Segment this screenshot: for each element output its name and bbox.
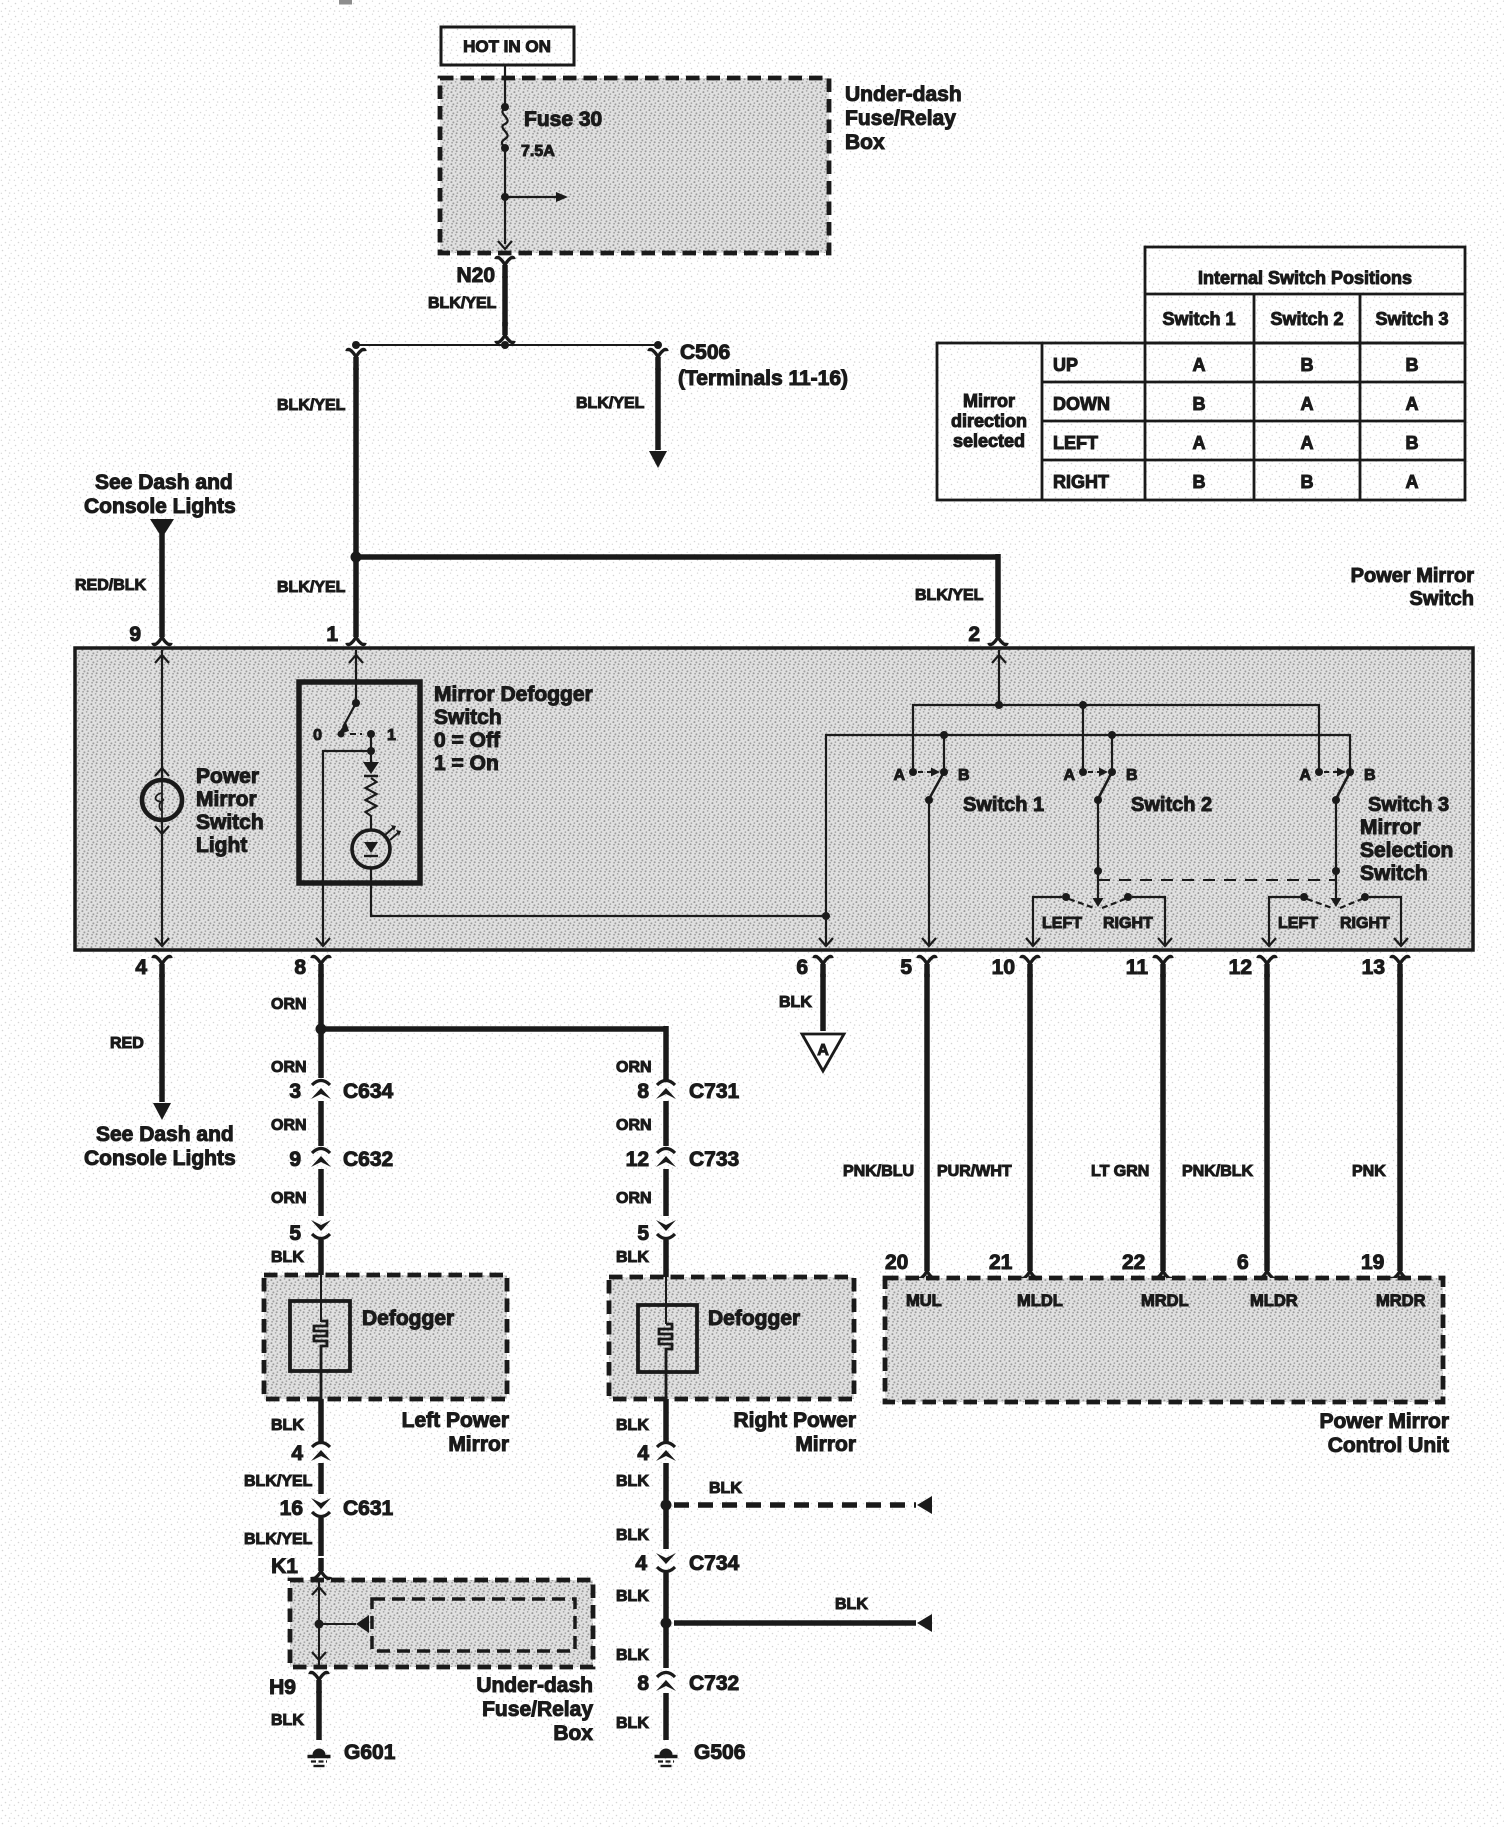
svg-text:6: 6: [1237, 1251, 1249, 1274]
svg-text:Power Mirror: Power Mirror: [1319, 1410, 1449, 1433]
svg-text:C733: C733: [689, 1148, 739, 1171]
svg-text:5: 5: [289, 1222, 301, 1245]
right defogger element box: [638, 1305, 697, 1372]
svg-text:12: 12: [626, 1148, 649, 1171]
svg-text:Right Power: Right Power: [733, 1409, 856, 1432]
wire PNK/BLK to control unit pin 6: [1264, 974, 1270, 1258]
pin 5 connector: [918, 956, 936, 977]
left mirror ORN chain: [318, 1029, 324, 1078]
connector C634: [311, 1081, 331, 1100]
svg-text:Box: Box: [845, 131, 885, 154]
node pin1/pin2 tee: [351, 552, 362, 563]
connector 5 into left mirror: [311, 1220, 331, 1239]
connector H9: [310, 1672, 328, 1693]
table internal switch positions: [1145, 247, 1465, 343]
svg-text:G506: G506: [694, 1741, 745, 1764]
connector 4 right mirror: [656, 1443, 676, 1462]
pin 10 connector: [1021, 956, 1039, 977]
mirror defogger switch box: [299, 682, 420, 883]
svg-text:13: 13: [1362, 956, 1385, 979]
left mirror lower chain to K1: [318, 1399, 324, 1443]
svg-text:Switch: Switch: [1360, 862, 1428, 885]
svg-text:Console Lights: Console Lights: [84, 495, 236, 518]
svg-text:Selection: Selection: [1360, 839, 1453, 862]
svg-text:Mirror Defogger: Mirror Defogger: [434, 683, 593, 706]
svg-text:12: 12: [1229, 956, 1252, 979]
connector C632: [311, 1149, 331, 1168]
power mirror control unit box: [885, 1278, 1443, 1402]
wire LT GRN to control unit pin 22: [1160, 974, 1166, 1258]
switch Switch 3 pivot: [1332, 796, 1340, 804]
svg-text:21: 21: [989, 1251, 1013, 1274]
power label box HOT IN ON: [441, 27, 574, 65]
mechanical linkage dashed: [1098, 879, 1336, 881]
svg-text:selected: selected: [953, 431, 1025, 451]
svg-text:N20: N20: [456, 264, 495, 287]
svg-text:Switch 3: Switch 3: [1368, 794, 1449, 816]
pin 12 connector: [1258, 956, 1276, 977]
svg-text:See Dash and: See Dash and: [96, 1123, 234, 1146]
svg-text:20: 20: [885, 1251, 908, 1274]
wire fuse box internal down to N20: [504, 197, 506, 244]
wire pin9 lamp feed inside box: [161, 650, 163, 780]
svg-text:1: 1: [387, 727, 396, 744]
LED indicator in defogger switch: [352, 830, 390, 868]
svg-text:A: A: [1193, 433, 1206, 453]
svg-text:B: B: [1406, 355, 1419, 375]
connector C731: [656, 1081, 676, 1100]
svg-text:Switch 2: Switch 2: [1131, 794, 1212, 816]
node BLK dashed branch: [661, 1500, 672, 1511]
svg-text:PNK/BLU: PNK/BLU: [843, 1163, 914, 1180]
selector bracket right: [1132, 897, 1165, 944]
svg-text:Left Power: Left Power: [402, 1409, 509, 1432]
svg-text:Switch: Switch: [1410, 588, 1474, 610]
node switch bus 1: [995, 701, 1003, 709]
svg-text:4: 4: [135, 956, 147, 979]
svg-text:Switch 2: Switch 2: [1270, 309, 1343, 329]
defogger switch contacts 0 / 1: [338, 731, 345, 738]
svg-text:MRDL: MRDL: [1141, 1292, 1189, 1310]
connector 5 into right mirror: [656, 1220, 676, 1239]
switch Switch 2 lever: [1098, 772, 1112, 799]
selector left contact: [1300, 893, 1308, 901]
wire BLK solid branch: [674, 1620, 916, 1626]
svg-text:A: A: [1301, 394, 1314, 414]
svg-text:Switch: Switch: [434, 706, 502, 729]
svg-text:BLK/YEL: BLK/YEL: [277, 579, 346, 596]
svg-text:10: 10: [992, 956, 1015, 979]
svg-text:PUR/WHT: PUR/WHT: [937, 1163, 1012, 1180]
svg-text:MLDL: MLDL: [1017, 1292, 1063, 1310]
node bus2 to B1: [940, 731, 948, 739]
svg-text:B: B: [1126, 767, 1138, 784]
svg-text:Fuse/Relay: Fuse/Relay: [482, 1698, 593, 1721]
svg-text:C731: C731: [689, 1080, 740, 1103]
svg-text:See Dash and: See Dash and: [95, 471, 233, 494]
selector bracket left: [1033, 897, 1062, 944]
pin 13 connector: [1391, 956, 1409, 977]
lamp power mirror switch light: [142, 780, 182, 820]
svg-text:ORN: ORN: [616, 1059, 652, 1076]
svg-text:BLK/YEL: BLK/YEL: [244, 1531, 313, 1548]
svg-text:HOT IN ON: HOT IN ON: [463, 37, 551, 56]
svg-text:C506: C506: [680, 341, 730, 364]
svg-text:C734: C734: [689, 1552, 740, 1575]
svg-text:DOWN: DOWN: [1053, 394, 1110, 414]
svg-text:BLK: BLK: [616, 1588, 649, 1605]
wire pin1 into defogger switch: [355, 650, 357, 701]
scan artifact mark top edge: [339, 0, 352, 5]
svg-text:BLK: BLK: [616, 1417, 649, 1434]
connector C631: [311, 1498, 331, 1517]
node LED join pin6: [822, 912, 830, 920]
wire PUR/WHT to control unit pin 21: [1027, 974, 1033, 1258]
svg-text:BLK: BLK: [271, 1249, 304, 1266]
svg-text:BLK: BLK: [779, 994, 812, 1011]
svg-text:Mirror: Mirror: [795, 1433, 856, 1456]
svg-text:RIGHT: RIGHT: [1340, 915, 1390, 932]
node switch2 linkage: [1094, 867, 1102, 875]
svg-text:2: 2: [968, 623, 980, 646]
right power mirror box: [609, 1277, 854, 1399]
svg-text:Mirror: Mirror: [1360, 816, 1421, 839]
connector N20: [496, 257, 514, 278]
svg-text:4: 4: [637, 1442, 649, 1465]
svg-text:BLK: BLK: [616, 1647, 649, 1664]
svg-text:0: 0: [313, 727, 322, 744]
svg-text:BLK: BLK: [835, 1596, 868, 1613]
node fuse output junction: [501, 193, 509, 201]
wire BLK dashed branch: [674, 1502, 916, 1508]
svg-text:PNK: PNK: [1352, 1163, 1386, 1180]
svg-text:K1: K1: [271, 1555, 298, 1578]
svg-text:C634: C634: [343, 1080, 394, 1103]
svg-text:16: 16: [280, 1497, 303, 1520]
svg-text:BLK: BLK: [616, 1527, 649, 1544]
svg-text:Control Unit: Control Unit: [1328, 1434, 1449, 1457]
svg-text:8: 8: [637, 1672, 649, 1695]
wire pin2 BLK/YEL horizontal + drop: [356, 554, 998, 560]
svg-text:7.5A: 7.5A: [521, 143, 555, 160]
wire pin2 feed inside box: [998, 650, 1000, 705]
connector C506 (Terminals 11-16) drop: [649, 349, 667, 370]
svg-text:BLK: BLK: [271, 1417, 304, 1434]
svg-text:H9: H9: [269, 1676, 296, 1699]
right mirror lower chain to G506: [663, 1399, 669, 1443]
wire switch2 pivot down: [1097, 800, 1099, 869]
right defogger element: [665, 1277, 667, 1324]
wire RED/BLK to dash lights: [150, 519, 174, 538]
svg-text:A: A: [1406, 394, 1419, 414]
connector C732: [656, 1673, 676, 1692]
wire ORN branch to right mirror: [321, 1026, 666, 1032]
svg-text:BLK: BLK: [709, 1480, 742, 1497]
svg-text:B: B: [1193, 472, 1206, 492]
switch Switch 1 contact A: [909, 768, 917, 776]
svg-text:MLDR: MLDR: [1250, 1292, 1298, 1310]
svg-text:C631: C631: [343, 1497, 394, 1520]
svg-text:6: 6: [796, 956, 808, 979]
fuse F30 7.5A: [502, 109, 508, 147]
resistor in defogger switch: [366, 778, 377, 830]
svg-text:direction: direction: [951, 411, 1027, 431]
svg-text:LT GRN: LT GRN: [1091, 1163, 1149, 1180]
svg-text:BLK: BLK: [616, 1715, 649, 1732]
wire switch1 pivot to pin5: [928, 800, 930, 944]
svg-text:9: 9: [129, 623, 141, 646]
wire from HOT IN ON into fuse box: [504, 65, 506, 105]
svg-text:LEFT: LEFT: [1053, 433, 1098, 453]
svg-text:G601: G601: [344, 1741, 396, 1764]
wire switch bus line1: [913, 705, 1319, 769]
svg-text:A: A: [817, 1042, 829, 1059]
svg-text:B: B: [1406, 433, 1419, 453]
pin 11 connector: [1154, 956, 1172, 977]
wire switch3 pivot down: [1335, 800, 1337, 869]
ground G601: [308, 1749, 331, 1767]
svg-text:Defogger: Defogger: [708, 1307, 800, 1330]
wire PNK/BLU to control unit pin 20: [924, 974, 930, 1258]
svg-text:Switch 1: Switch 1: [1162, 309, 1235, 329]
left power mirror box: [264, 1275, 507, 1399]
switch Switch 3 contact B: [1346, 768, 1354, 776]
svg-text:BLK/YEL: BLK/YEL: [277, 397, 346, 414]
switch Switch 1 lever: [929, 772, 944, 799]
svg-text:B: B: [1301, 355, 1314, 375]
svg-text:Light: Light: [196, 834, 247, 857]
internal wire arrow to block: [319, 1623, 356, 1625]
svg-text:RED/BLK: RED/BLK: [75, 577, 147, 594]
svg-text:BLK/YEL: BLK/YEL: [428, 295, 497, 312]
svg-text:Under-dash: Under-dash: [845, 83, 962, 106]
svg-text:Power: Power: [196, 765, 259, 788]
pin 8 connector: [312, 956, 330, 977]
LED light arrows: [385, 828, 398, 840]
selector bracket right: [1369, 897, 1401, 944]
svg-text:1: 1: [326, 623, 338, 646]
svg-text:BLK: BLK: [616, 1473, 649, 1490]
power mirror switch box: [75, 648, 1473, 950]
wire switch bus line2: [826, 735, 1350, 944]
wire pin6 BLK to ground A: [820, 974, 826, 1031]
under-dash fuse/relay box (top): [440, 78, 829, 253]
svg-text:9: 9: [289, 1148, 301, 1171]
svg-text:A: A: [893, 767, 905, 784]
svg-text:8: 8: [294, 956, 306, 979]
node C506 left: [352, 341, 360, 349]
switch Switch 1 contact B: [940, 768, 948, 776]
svg-text:ORN: ORN: [271, 996, 307, 1013]
svg-text:C632: C632: [343, 1148, 393, 1171]
svg-text:Mirror: Mirror: [448, 1433, 509, 1456]
svg-text:BLK: BLK: [616, 1249, 649, 1266]
connector C733: [656, 1149, 676, 1168]
svg-text:Fuse/Relay: Fuse/Relay: [845, 107, 956, 130]
svg-text:ORN: ORN: [271, 1059, 307, 1076]
connector C734: [656, 1553, 676, 1572]
svg-text:PNK/BLK: PNK/BLK: [1182, 1163, 1254, 1180]
defogger switch lever: [352, 699, 360, 707]
svg-text:4: 4: [291, 1442, 303, 1465]
svg-text:Console Lights: Console Lights: [84, 1147, 236, 1170]
switch Switch 2 contact B: [1108, 768, 1116, 776]
wire pin8 ORN down: [318, 974, 324, 1026]
svg-text:ORN: ORN: [616, 1190, 652, 1207]
ground A triangle: [802, 1034, 844, 1071]
svg-text:Under-dash: Under-dash: [476, 1674, 593, 1697]
switch Switch 2 pivot: [1094, 796, 1102, 804]
svg-text:Defogger: Defogger: [362, 1307, 454, 1330]
svg-text:19: 19: [1361, 1251, 1384, 1274]
node BLK solid branch: [661, 1618, 672, 1629]
fuse box internal wire: [318, 1580, 320, 1667]
node ORN branch: [316, 1024, 327, 1035]
svg-text:5: 5: [637, 1222, 649, 1245]
svg-text:Power Mirror: Power Mirror: [1351, 565, 1475, 587]
ground G506: [655, 1749, 678, 1767]
fuse box internal connector block: [372, 1599, 575, 1651]
svg-text:4: 4: [635, 1552, 647, 1575]
node C506 right: [654, 341, 662, 349]
svg-text:3: 3: [289, 1080, 301, 1103]
pin 6 connector: [814, 956, 832, 977]
svg-text:B: B: [1364, 767, 1376, 784]
svg-text:Switch 3: Switch 3: [1375, 309, 1448, 329]
svg-text:B: B: [1193, 394, 1206, 414]
switch Switch 3 contact A: [1315, 768, 1323, 776]
svg-text:(Terminals 11-16): (Terminals 11-16): [678, 367, 848, 390]
wire fuse to junction: [504, 148, 506, 197]
svg-text:Fuse 30: Fuse 30: [524, 108, 602, 131]
svg-text:LEFT: LEFT: [1042, 915, 1082, 932]
svg-text:22: 22: [1122, 1251, 1145, 1274]
wire pin4 RED to dash lights: [159, 974, 165, 1102]
switch Switch 1 pivot: [925, 796, 933, 804]
node bus2 to B2: [1108, 731, 1116, 739]
svg-text:RIGHT: RIGHT: [1053, 472, 1109, 492]
under-dash fuse/relay box (bottom): [290, 1580, 593, 1667]
svg-text:Mirror: Mirror: [963, 391, 1015, 411]
node defogger switch branch: [367, 747, 375, 755]
svg-text:Box: Box: [553, 1722, 593, 1745]
svg-text:LEFT: LEFT: [1278, 915, 1318, 932]
node K1 internal: [315, 1620, 324, 1629]
svg-text:BLK/YEL: BLK/YEL: [915, 587, 984, 604]
svg-text:RED: RED: [110, 1035, 144, 1052]
selector lever dashes: [1069, 899, 1125, 908]
svg-text:B: B: [958, 767, 970, 784]
diode in defogger switch: [370, 751, 372, 762]
svg-text:UP: UP: [1053, 355, 1078, 375]
wire PNK to control unit pin 19: [1397, 974, 1403, 1258]
svg-text:RIGHT: RIGHT: [1103, 915, 1153, 932]
node fuse top: [501, 103, 509, 111]
svg-text:ORN: ORN: [271, 1190, 307, 1207]
wire branch arrow right inside fuse box: [505, 196, 556, 198]
selector lever dashes: [1307, 899, 1362, 908]
pin 4 connector: [153, 956, 171, 977]
wire pin1 BLK/YEL vertical: [347, 349, 365, 370]
svg-text:MUL: MUL: [906, 1292, 942, 1310]
svg-text:Mirror: Mirror: [196, 788, 257, 811]
selector right contact: [1124, 893, 1132, 901]
svg-text:8: 8: [637, 1080, 649, 1103]
svg-text:BLK/YEL: BLK/YEL: [244, 1473, 313, 1490]
selector left contact: [1062, 893, 1070, 901]
node switch3 linkage: [1332, 867, 1340, 875]
svg-text:Switch: Switch: [196, 811, 264, 834]
svg-text:Switch 1: Switch 1: [963, 794, 1044, 816]
svg-text:C732: C732: [689, 1672, 739, 1695]
node bus1 to switch2: [1079, 701, 1087, 709]
svg-text:5: 5: [900, 956, 912, 979]
connector K1 into fuse box: [312, 1558, 330, 1579]
svg-text:A: A: [1299, 767, 1311, 784]
svg-text:11: 11: [1126, 956, 1149, 979]
svg-text:1 = On: 1 = On: [434, 752, 499, 775]
switch Switch 2 contact A: [1079, 768, 1087, 776]
wire LED to pin6 bus: [371, 868, 824, 916]
svg-text:BLK: BLK: [271, 1712, 304, 1729]
svg-text:A: A: [1301, 433, 1314, 453]
svg-text:ORN: ORN: [271, 1117, 307, 1134]
wire BLK/YEL N20 down to C506 node: [502, 276, 508, 326]
svg-text:0 = Off: 0 = Off: [434, 729, 501, 752]
selector right contact: [1361, 893, 1369, 901]
left defogger element box: [290, 1301, 350, 1371]
svg-text:B: B: [1301, 472, 1314, 492]
svg-text:A: A: [1406, 472, 1419, 492]
svg-text:A: A: [1193, 355, 1206, 375]
connector 4 left mirror: [311, 1443, 331, 1462]
selector bracket left: [1269, 897, 1300, 944]
svg-text:A: A: [1063, 767, 1075, 784]
svg-text:ORN: ORN: [616, 1117, 652, 1134]
switch Switch 3 lever: [1336, 772, 1350, 799]
svg-text:BLK/YEL: BLK/YEL: [576, 395, 645, 412]
wire C506 bus horizontal: [356, 344, 658, 346]
wire branch to pin8: [323, 751, 371, 944]
svg-text:MRDR: MRDR: [1376, 1292, 1426, 1310]
left defogger element: [320, 1275, 322, 1322]
node C506 center: [501, 341, 509, 349]
svg-text:Internal Switch Positions: Internal Switch Positions: [1198, 268, 1412, 288]
